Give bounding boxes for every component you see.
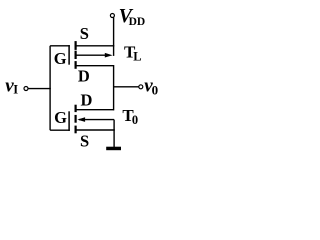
node VDD terminal circle — [110, 14, 114, 18]
svg-text:0: 0 — [132, 113, 138, 127]
transistor T0 gate lead wire — [50, 129, 70, 131]
svg-text:S: S — [80, 24, 89, 43]
svg-text:0: 0 — [152, 83, 159, 98]
svg-text:D: D — [78, 67, 90, 86]
transistor TL gate bar — [68, 45, 70, 65]
ground — [106, 147, 121, 151]
wire input lead — [28, 88, 51, 90]
transistor TL channel segment D — [75, 61, 77, 69]
transistor T0 channel segment body — [75, 115, 77, 123]
svg-text:S: S — [80, 132, 89, 151]
wire TL source lead to VDD rail — [76, 45, 115, 47]
wire TL body lead with arrow — [76, 54, 107, 56]
transistor TL channel segment S — [75, 41, 77, 50]
transistor TL channel segment body — [75, 51, 77, 59]
wire TL drain lead — [76, 65, 114, 67]
transistor T0 channel segment D — [75, 105, 77, 112]
wire drain drop between transistors — [113, 65, 115, 110]
svg-text:I: I — [13, 83, 18, 97]
svg-text:G: G — [54, 49, 67, 68]
wire output lead — [114, 86, 139, 88]
svg-text:G: G — [54, 108, 67, 127]
wire T0 drain lead — [76, 109, 114, 111]
wire ground drop — [113, 120, 115, 147]
transistor T0 gate bar — [68, 111, 70, 131]
transistor T0 channel segment S — [75, 126, 77, 134]
wire input riser — [49, 46, 51, 130]
wire T0 body lead with arrow — [79, 119, 114, 121]
wire VDD riser — [113, 17, 115, 56]
node vO output terminal circle — [139, 85, 143, 89]
svg-text:D: D — [80, 91, 92, 110]
svg-text:L: L — [133, 50, 141, 64]
node vI input terminal circle — [24, 87, 28, 91]
transistor TL gate lead wire — [50, 45, 70, 47]
wire T0 source lead — [76, 129, 115, 131]
svg-text:DD: DD — [129, 16, 146, 28]
